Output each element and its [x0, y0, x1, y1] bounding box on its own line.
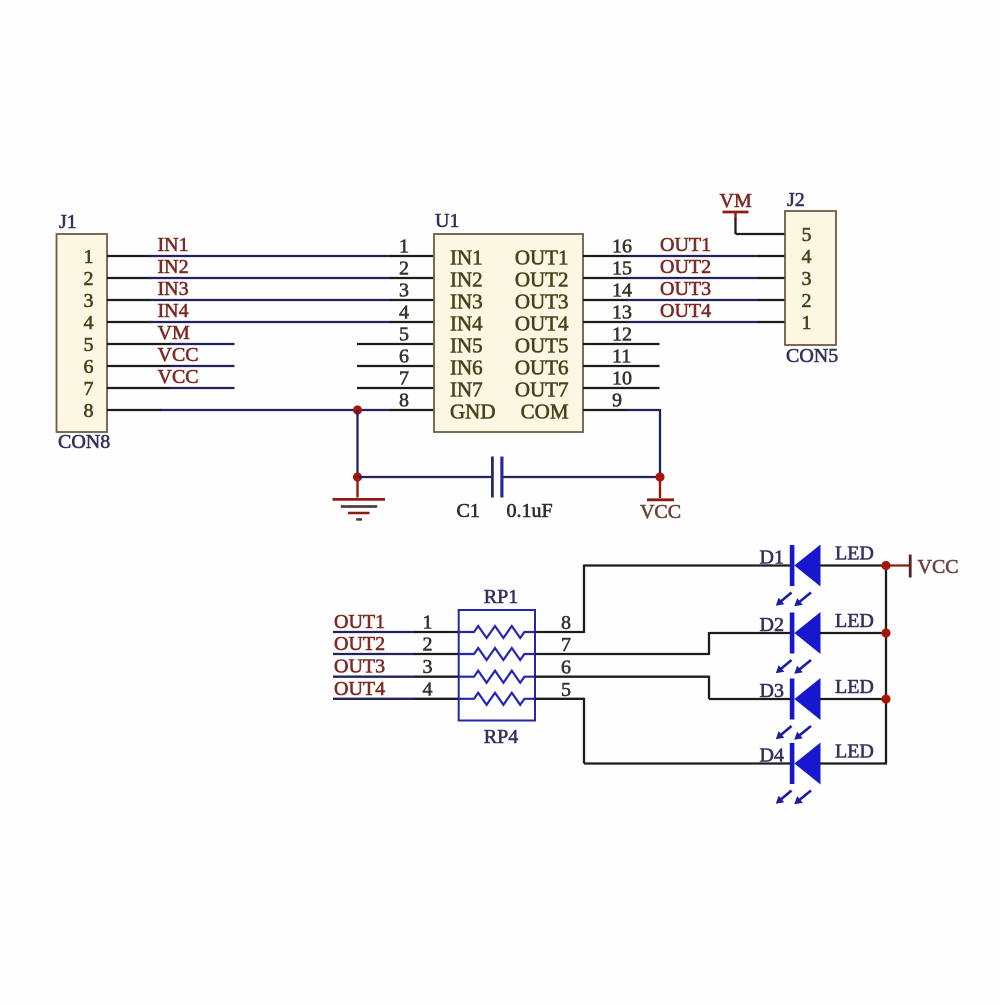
svg-text:IN7: IN7 [450, 378, 483, 402]
net label OUT2 (bottom) [334, 633, 385, 655]
net label VCC [158, 344, 199, 366]
junction VCC bus at y=565.5 [881, 561, 890, 570]
LED D1 [790, 545, 821, 587]
wire D4 anode to VCC bus [820, 762, 887, 764]
label LED (D2) [835, 610, 874, 632]
svg-text:OUT4: OUT4 [515, 312, 569, 336]
svg-text:13: 13 [612, 302, 632, 324]
label U1 [435, 210, 459, 232]
svg-text:VM: VM [720, 190, 752, 212]
net label OUT4 [660, 300, 711, 322]
RP1 pin numbers 8-5 [561, 612, 571, 701]
svg-text:8: 8 [84, 400, 94, 422]
svg-text:9: 9 [612, 390, 622, 412]
label RP1 [484, 586, 518, 608]
svg-text:OUT3: OUT3 [660, 278, 711, 300]
svg-text:LED: LED [835, 610, 874, 632]
value 0.1uF [507, 500, 553, 522]
junction J1.8 / GND branch [353, 405, 362, 414]
svg-text:GND: GND [450, 400, 496, 424]
svg-text:4: 4 [423, 678, 433, 700]
svg-text:5: 5 [561, 679, 571, 701]
U1 left pin names IN1-IN7 GND [450, 246, 496, 424]
capacitor C1 plates [491, 457, 504, 498]
resistor element RP1.2-7 [459, 648, 535, 660]
svg-text:OUT7: OUT7 [515, 378, 569, 402]
label LED (D1) [835, 543, 874, 565]
label LED (D3) [835, 676, 874, 698]
net label OUT3 (bottom) [334, 656, 385, 678]
pin U1.6 stub [357, 365, 434, 367]
svg-text:6: 6 [399, 346, 409, 368]
svg-text:IN1: IN1 [450, 246, 483, 270]
wire D3 anode to VCC bus [820, 698, 887, 700]
svg-text:CON8: CON8 [58, 431, 110, 453]
svg-text:VCC: VCC [158, 344, 199, 366]
wire GND net: J1.8 to U1.8 [107, 409, 434, 411]
svg-text:IN5: IN5 [450, 334, 483, 358]
svg-text:0.1uF: 0.1uF [507, 500, 553, 522]
wire IN3 net: J1.3 to U1.3 [107, 299, 434, 301]
svg-text:3: 3 [802, 268, 812, 290]
svg-text:OUT2: OUT2 [660, 256, 711, 278]
wire RP1.6 to D3 cathode [535, 676, 790, 699]
J2 pin numbers 5-1 [802, 224, 812, 334]
svg-text:OUT5: OUT5 [515, 334, 569, 358]
U1 right pin numbers 16-9 [612, 236, 632, 412]
svg-text:16: 16 [612, 236, 632, 258]
wire U1.9 COM to VCC node [583, 409, 660, 478]
svg-text:7: 7 [561, 634, 571, 656]
svg-text:5: 5 [802, 224, 812, 246]
LED D2 [790, 612, 821, 654]
net label OUT2 [660, 256, 711, 278]
label RP4 [484, 726, 518, 748]
net label OUT4 (bottom) [334, 678, 385, 700]
resistor element RP1.4-5 [459, 693, 535, 705]
svg-text:4: 4 [802, 246, 812, 268]
label VCC (power) [640, 501, 681, 523]
svg-text:VCC: VCC [918, 556, 959, 578]
wire OUT1 net to RP1.1 [333, 631, 459, 633]
svg-text:5: 5 [84, 334, 94, 356]
svg-text:IN2: IN2 [158, 256, 189, 278]
svg-text:4: 4 [84, 312, 94, 334]
svg-text:LED: LED [835, 741, 874, 763]
svg-text:7: 7 [399, 368, 409, 390]
svg-text:IN4: IN4 [158, 300, 189, 322]
wire GND branch down [356, 410, 358, 478]
svg-text:LED: LED [835, 543, 874, 565]
wire OUT1 net: U1.16 to J2.4 [583, 255, 785, 257]
svg-text:J2: J2 [787, 189, 805, 211]
power symbol VCC [647, 481, 674, 500]
svg-text:12: 12 [612, 324, 632, 346]
wire VCC net from J1 pin [107, 365, 235, 367]
label D3 [760, 680, 784, 702]
svg-text:2: 2 [399, 258, 409, 280]
svg-text:11: 11 [612, 346, 631, 368]
svg-text:3: 3 [423, 656, 433, 678]
net label IN1 [158, 234, 189, 256]
svg-text:5: 5 [399, 324, 409, 346]
power symbol VCC (LED bus) [886, 555, 912, 578]
LED D4 [790, 743, 821, 785]
svg-text:CON5: CON5 [786, 345, 838, 367]
resistor element RP1.1-8 [459, 626, 535, 638]
pin U1.5 stub [357, 343, 434, 345]
wire D1 anode to VCC bus [820, 564, 887, 566]
junction GND node [353, 472, 362, 481]
net label VCC [158, 366, 199, 388]
D3 emission arrows [776, 726, 811, 740]
svg-text:IN6: IN6 [450, 356, 483, 380]
svg-text:2: 2 [84, 268, 94, 290]
label J1 [59, 211, 77, 233]
net label IN4 [158, 300, 189, 322]
connector J1 body (CON8) [57, 234, 108, 432]
svg-text:2: 2 [802, 290, 812, 312]
wire IN2 net: J1.2 to U1.2 [107, 277, 434, 279]
label VM (power) [720, 190, 752, 212]
wire OUT4 net to RP1.4 [333, 698, 459, 700]
label C1 [457, 500, 480, 522]
wire OUT2 net: U1.15 to J2.3 [583, 277, 785, 279]
wire GND node to C1 left plate [358, 476, 493, 478]
junction VCC bus at y=633 [881, 628, 890, 637]
svg-text:RP1: RP1 [484, 586, 518, 608]
U1 right pin names OUT1-OUT7 COM [515, 246, 569, 424]
svg-text:C1: C1 [457, 500, 480, 522]
label D1 [760, 547, 784, 569]
svg-text:VCC: VCC [158, 366, 199, 388]
svg-text:D2: D2 [760, 614, 784, 636]
pin U1.10 stub [583, 387, 660, 389]
svg-text:OUT6: OUT6 [515, 356, 569, 380]
D2 emission arrows [776, 660, 811, 674]
svg-text:6: 6 [561, 657, 571, 679]
wire D2 anode to VCC bus [820, 632, 887, 634]
wire OUT2 net to RP1.2 [333, 653, 459, 655]
label LED (D4) [835, 741, 874, 763]
resistor element RP1.3-6 [459, 671, 535, 683]
net label IN3 [158, 278, 189, 300]
svg-text:IN1: IN1 [158, 234, 189, 256]
J1 pin numbers 1-8 [84, 246, 94, 422]
label J2 [787, 189, 805, 211]
svg-text:2: 2 [423, 634, 433, 656]
svg-text:OUT4: OUT4 [334, 678, 385, 700]
wire VM to J2.5 [736, 218, 786, 234]
svg-text:VM: VM [158, 322, 190, 344]
svg-text:IN4: IN4 [450, 312, 483, 336]
svg-text:1: 1 [84, 246, 94, 268]
svg-text:OUT1: OUT1 [660, 234, 711, 256]
svg-text:D3: D3 [760, 680, 784, 702]
label CON5 [786, 345, 838, 367]
svg-text:RP4: RP4 [484, 726, 518, 748]
wire VCC net from J1 pin [107, 387, 235, 389]
wire IN4 net: J1.4 to U1.4 [107, 321, 434, 323]
svg-text:VCC: VCC [640, 501, 681, 523]
VCC bus wire (LED anodes) [885, 566, 887, 764]
svg-text:7: 7 [84, 378, 94, 400]
svg-text:OUT3: OUT3 [334, 656, 385, 678]
svg-text:D4: D4 [760, 745, 784, 767]
svg-text:1: 1 [802, 312, 812, 334]
svg-text:OUT2: OUT2 [334, 633, 385, 655]
svg-text:U1: U1 [435, 210, 459, 232]
svg-text:IN3: IN3 [158, 278, 189, 300]
svg-text:J1: J1 [59, 211, 77, 233]
svg-text:OUT1: OUT1 [334, 611, 385, 633]
wire OUT3 net: U1.14 to J2.2 [583, 299, 785, 301]
net label IN2 [158, 256, 189, 278]
wire RP1.7 to D2 cathode [535, 632, 790, 655]
RP1 pin numbers 1-4 [423, 612, 433, 701]
label CON8 [58, 431, 110, 453]
wire OUT3 net to RP1.3 [333, 676, 459, 678]
svg-text:4: 4 [399, 302, 409, 324]
svg-text:OUT4: OUT4 [660, 300, 711, 322]
svg-text:OUT1: OUT1 [515, 246, 569, 270]
net label OUT1 [660, 234, 711, 256]
svg-text:8: 8 [399, 390, 409, 412]
svg-text:6: 6 [84, 356, 94, 378]
D1 emission arrows [776, 593, 811, 607]
svg-text:OUT3: OUT3 [515, 290, 569, 314]
wire VM net from J1 pin [107, 343, 235, 345]
svg-text:D1: D1 [760, 547, 784, 569]
svg-text:COM: COM [521, 400, 569, 424]
label D4 [760, 745, 784, 767]
wire RP1.5 to D4 cathode [535, 698, 790, 764]
svg-text:8: 8 [561, 612, 571, 634]
pin U1.7 stub [357, 387, 434, 389]
label D2 [760, 614, 784, 636]
resistor network RP1 body [459, 610, 535, 721]
svg-text:OUT2: OUT2 [515, 268, 569, 292]
power symbol VM [723, 212, 749, 219]
junction VCC node [655, 472, 664, 481]
U1 left pin numbers 1-8 [399, 236, 409, 412]
IC U1 body [434, 234, 583, 432]
wire OUT4 net: U1.13 to J2.1 [583, 321, 785, 323]
wire RP1.8 to D1 cathode [535, 565, 790, 634]
wire C1 right plate to VCC node [504, 476, 661, 478]
svg-text:15: 15 [612, 258, 632, 280]
net label OUT1 (bottom) [334, 611, 385, 633]
svg-text:1: 1 [423, 612, 433, 634]
net label VM [158, 322, 190, 344]
D4 emission arrows [776, 791, 811, 805]
ground symbol [333, 481, 386, 519]
pin U1.11 stub [583, 365, 660, 367]
svg-text:1: 1 [399, 236, 409, 258]
svg-text:14: 14 [612, 280, 632, 302]
pin U1.12 stub [583, 343, 660, 345]
wire IN1 net: J1.1 to U1.1 [107, 255, 434, 257]
svg-text:3: 3 [84, 290, 94, 312]
svg-text:LED: LED [835, 676, 874, 698]
net label OUT3 [660, 278, 711, 300]
junction VCC bus at y=699 [881, 694, 890, 703]
connector J2 body (CON5) [785, 211, 836, 345]
svg-text:3: 3 [399, 280, 409, 302]
svg-text:IN3: IN3 [450, 290, 483, 314]
LED D3 [790, 678, 821, 720]
svg-text:IN2: IN2 [450, 268, 483, 292]
label VCC (LED bus) [918, 556, 959, 578]
svg-text:10: 10 [612, 368, 632, 390]
